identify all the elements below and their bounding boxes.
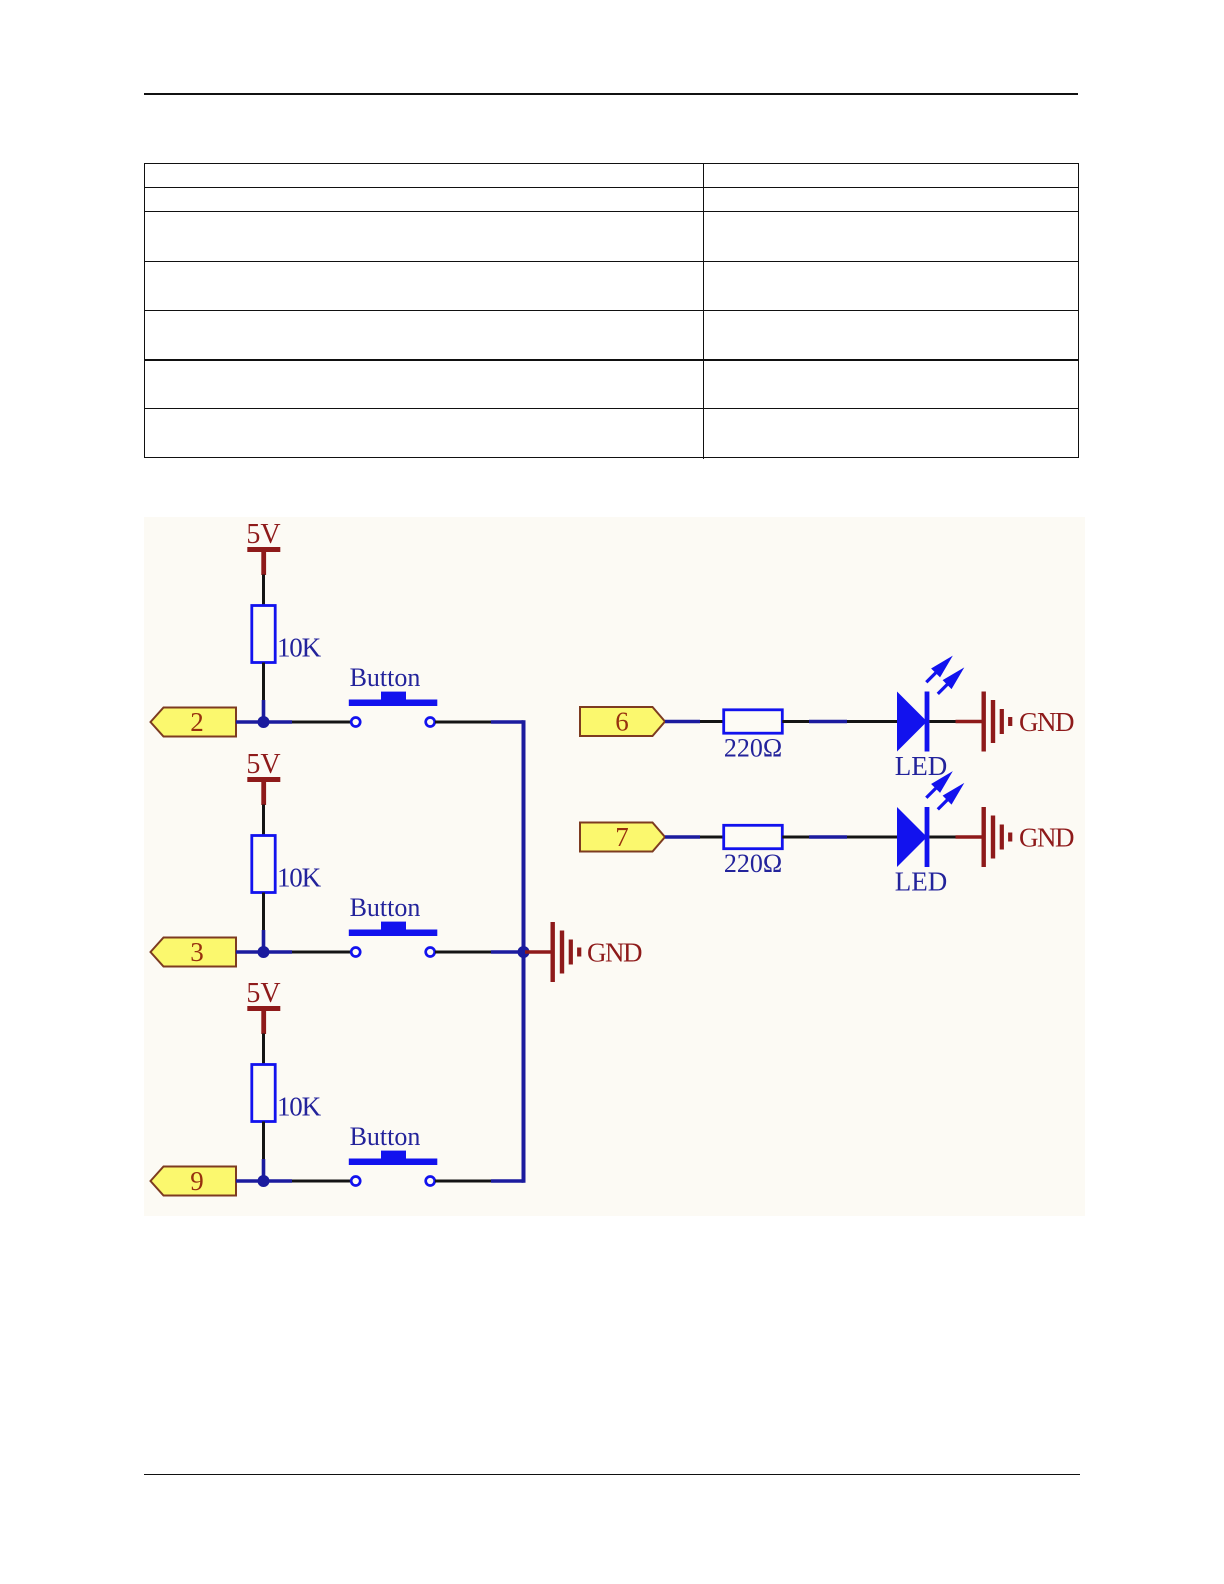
wire (dark red) into ground (pin 6) <box>956 720 982 723</box>
LED D (pin 6) <box>895 692 947 782</box>
wire (black) resistor to node (pin 3) <box>262 893 265 931</box>
wire (dark red) into ground (pin 7) <box>956 835 982 838</box>
wire (navy) flag to junction (pin 3) <box>236 950 292 954</box>
power symbol 5V for pin 2 <box>246 519 280 575</box>
wire (navy) flag to wire (pin 6) <box>665 720 700 724</box>
junction node (pin 2) <box>258 716 270 728</box>
wire (black) segment to LED (pin 6) <box>847 720 898 723</box>
svg-text:LED: LED <box>895 867 947 897</box>
svg-text:10K: 10K <box>277 1092 322 1122</box>
ground symbol GND (pin 7) <box>982 807 1074 867</box>
wire (black) to resistor (pin 6) <box>700 720 724 723</box>
svg-text:5V: 5V <box>246 978 280 1009</box>
wire (black) node to button (pin 2) <box>292 721 351 724</box>
resistor R (pin 3) 10K <box>252 836 322 893</box>
ground symbol GND (pin 6) <box>982 692 1074 752</box>
svg-text:GND: GND <box>1019 707 1074 737</box>
wire (black) node to button (pin 3) <box>292 951 351 954</box>
resistor 220 ohm (pin 6) <box>724 710 783 763</box>
resistor R (pin 9) 10K <box>252 1065 322 1122</box>
vertical bus wire (navy) <box>522 720 526 1183</box>
svg-text:220Ω: 220Ω <box>724 734 782 763</box>
svg-text:5V: 5V <box>246 749 280 780</box>
resistor R (pin 2) 10K <box>252 606 322 663</box>
wire (black) resistor to LED (pin 7) <box>782 836 809 839</box>
wire (black) node to button (pin 9) <box>292 1180 351 1183</box>
wire (black) button to bus (pin 9) <box>435 1180 491 1183</box>
svg-text:220Ω: 220Ω <box>724 849 782 878</box>
wire (navy) to bus corner (pin 9) <box>491 1179 524 1183</box>
svg-text:Button: Button <box>350 893 421 922</box>
wire (navy) flag to junction (pin 2) <box>236 720 292 724</box>
port flag pin 2 <box>151 707 237 737</box>
junction node (pin 9) <box>258 1175 270 1187</box>
port flag pin 3 <box>151 937 237 967</box>
footer rule <box>144 1474 1080 1476</box>
port flag pin 6 <box>580 707 665 737</box>
wire (black) from 5V to R (pin 9) <box>262 1034 265 1065</box>
port flag pin 9 <box>151 1166 237 1196</box>
svg-text:GND: GND <box>587 938 642 968</box>
wire (black) button to bus (pin 3) <box>435 951 491 954</box>
schematic background <box>144 517 1085 1216</box>
wire (navy) into node (pin 3) <box>262 930 266 952</box>
LED D (pin 7) <box>895 807 947 897</box>
svg-text:Button: Button <box>350 1122 421 1151</box>
pushbutton Button (pin 9) <box>349 1122 438 1186</box>
wire (navy) segment (pin 7) <box>809 835 847 839</box>
svg-text:5V: 5V <box>246 519 280 550</box>
wire (navy) to bus corner (pin 3) <box>491 950 524 954</box>
ground symbol GND (bus) <box>551 922 642 982</box>
svg-text:GND: GND <box>1019 823 1074 853</box>
wire (black) from 5V to R (pin 2) <box>262 575 265 606</box>
wire (black) resistor to node (pin 2) <box>262 663 265 701</box>
svg-text:3: 3 <box>190 937 204 967</box>
svg-text:2: 2 <box>190 707 204 737</box>
wire (dark red) bus to ground <box>525 950 551 953</box>
wire (black) from 5V to R (pin 3) <box>262 805 265 836</box>
power symbol 5V for pin 9 <box>246 978 280 1034</box>
wire (navy) into node (pin 9) <box>262 1159 266 1181</box>
wire (black) segment to LED (pin 7) <box>847 836 898 839</box>
wire (black) button to bus (pin 2) <box>435 721 491 724</box>
svg-text:9: 9 <box>190 1166 204 1196</box>
table (empty) <box>144 163 1079 458</box>
LED light arrows (pin 6) <box>926 660 960 694</box>
junction node on bus <box>518 946 530 958</box>
wire (navy) to bus corner (pin 2) <box>491 720 524 724</box>
wire (black) resistor to LED (pin 6) <box>782 720 809 723</box>
wire (black) resistor to node (pin 9) <box>262 1122 265 1160</box>
svg-text:6: 6 <box>615 707 629 737</box>
wire (navy) into node (pin 2) <box>262 700 266 722</box>
svg-text:10K: 10K <box>277 633 322 663</box>
pushbutton Button (pin 2) <box>349 663 438 727</box>
wire (navy) flag to junction (pin 9) <box>236 1179 292 1183</box>
header rule <box>144 93 1078 95</box>
LED light arrows (pin 7) <box>926 776 960 810</box>
svg-text:Button: Button <box>350 663 421 692</box>
wire (black) to resistor (pin 7) <box>700 836 724 839</box>
svg-text:LED: LED <box>895 751 947 781</box>
wire (black) LED to ground (pin 6) <box>929 720 955 723</box>
port flag pin 7 <box>580 822 665 852</box>
resistor 220 ohm (pin 7) <box>724 825 783 878</box>
junction node (pin 3) <box>258 946 270 958</box>
pushbutton Button (pin 3) <box>349 893 438 957</box>
svg-text:10K: 10K <box>277 863 322 893</box>
wire (black) LED to ground (pin 7) <box>929 836 955 839</box>
wire (navy) flag to wire (pin 7) <box>665 835 700 839</box>
wire (navy) segment (pin 6) <box>809 720 847 724</box>
svg-text:7: 7 <box>615 822 629 852</box>
power symbol 5V for pin 3 <box>246 749 280 805</box>
